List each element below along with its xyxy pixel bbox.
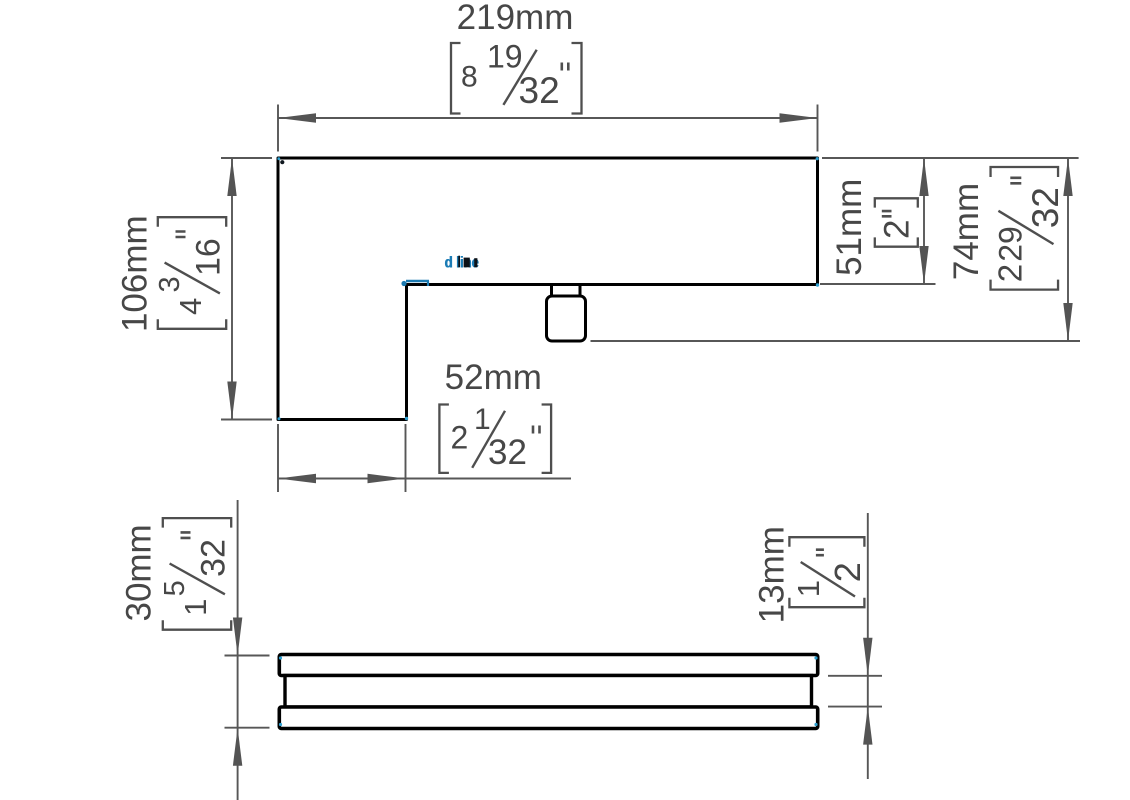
svg-text:51mm: 51mm [830, 179, 869, 276]
svg-text:2: 2 [991, 264, 1028, 282]
bracket [4 3/16"] (rotated) [154, 217, 228, 329]
blue edge highlight near notch [406, 281, 429, 286]
knob neck [552, 285, 581, 297]
arrow 13 bottom [863, 707, 872, 745]
svg-text:52mm: 52mm [445, 358, 542, 397]
svg-text:32: 32 [488, 433, 527, 472]
arrow 52 left [278, 474, 316, 483]
arrow 219 right [780, 113, 818, 122]
bottom view: middle plate [285, 676, 812, 708]
svg-text:219mm: 219mm [457, 0, 574, 37]
bottom view: top plate [279, 655, 817, 676]
bracket [2"] (rotated) [875, 198, 918, 246]
svg-text:4: 4 [173, 298, 208, 315]
arrow 74 bottom [1063, 303, 1072, 341]
arrow 51 bottom [919, 246, 928, 284]
dim 219mm line [278, 117, 818, 119]
arrow 219 left [278, 113, 316, 122]
dark endpoint dot at top-left corner [280, 160, 284, 164]
bracket [2 1/32"] [439, 403, 551, 473]
svg-text:1: 1 [791, 580, 826, 597]
svg-text:32: 32 [519, 70, 560, 111]
arrow 106 top [227, 158, 236, 196]
svg-text:30mm: 30mm [120, 524, 159, 621]
svg-text:2: 2 [827, 562, 868, 582]
dim 30mm line [237, 500, 239, 800]
svg-text:32: 32 [1025, 187, 1066, 228]
svg-text:32: 32 [195, 539, 233, 577]
arrow 30 top [233, 618, 242, 656]
bottom view: bottom plate [279, 707, 817, 729]
svg-text:13mm: 13mm [753, 526, 792, 623]
bracket [1 5/32"] (rotated) [159, 518, 233, 630]
logo d line [444, 254, 479, 271]
svg-text:16: 16 [190, 238, 228, 276]
dim 13mm ticks [828, 676, 882, 707]
bracket [1/2"] (rotated) [789, 537, 868, 607]
dim 52mm line + leader [278, 478, 571, 480]
dim 51mm bottom extension line [820, 283, 936, 285]
dim 52mm extension lines [278, 424, 406, 492]
arrow 51 top [919, 158, 928, 196]
svg-text:19: 19 [487, 39, 523, 75]
svg-text:1: 1 [178, 599, 213, 616]
dim 106mm line [231, 158, 233, 420]
dim 219mm extension lines [278, 105, 818, 152]
svg-text:2: 2 [451, 419, 469, 455]
svg-text:3: 3 [154, 276, 186, 292]
svg-text:106mm: 106mm [116, 215, 155, 332]
knob body [547, 296, 586, 341]
arrow 52 right [368, 474, 406, 483]
arrow 106 bottom [227, 382, 236, 420]
svg-text:8: 8 [461, 60, 478, 93]
svg-text:29: 29 [992, 226, 1028, 262]
arrow 30 bottom [233, 728, 242, 766]
arrow 74 top [1063, 158, 1072, 196]
blue endpoint dot at notch [401, 281, 406, 286]
arrowheads [227, 113, 1072, 765]
dim 30mm ticks [225, 656, 270, 728]
svg-text:1: 1 [474, 403, 491, 436]
dim 51/74mm top extension line [822, 157, 1079, 159]
bracket [8 19/32"] [451, 39, 582, 114]
bracket [2 29/32"] (rotated) [991, 167, 1066, 290]
dim 74mm bottom extension line [591, 340, 1081, 342]
dim 13mm line [867, 513, 869, 779]
L-shaped profile (top view) [278, 158, 818, 420]
blue endpoint dots [277, 157, 819, 726]
svg-text:5: 5 [159, 580, 191, 596]
arrow 13 top [863, 638, 872, 676]
dim 106mm extension lines [221, 158, 272, 420]
svg-text:2: 2 [878, 220, 917, 239]
dim 51mm line [923, 158, 925, 284]
svg-text:74mm: 74mm [947, 183, 986, 280]
svg-text:d line: d line [445, 254, 479, 271]
dim 74mm line [1067, 158, 1069, 341]
